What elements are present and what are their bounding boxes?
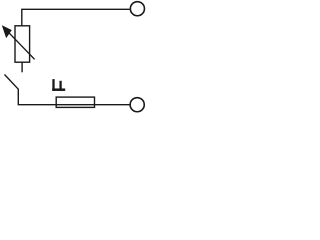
wire stub: resistor bottom to switch contact <box>21 62 23 72</box>
wire: switch to fuse and through to terminal <box>18 89 129 105</box>
switch blade (open) <box>5 75 19 90</box>
fuse F body <box>56 97 94 107</box>
terminal top-right <box>130 2 144 16</box>
wire top: resistor top to terminal <box>22 9 130 26</box>
resistor R1 (variable) body <box>15 26 30 62</box>
resistor R1 adjustment arrow head <box>3 26 12 37</box>
label F (rotated 90deg CCW, drawn as strokes) <box>52 79 65 91</box>
resistor R1 adjustment arrow shaft <box>8 31 35 59</box>
terminal bottom-right <box>130 98 144 112</box>
